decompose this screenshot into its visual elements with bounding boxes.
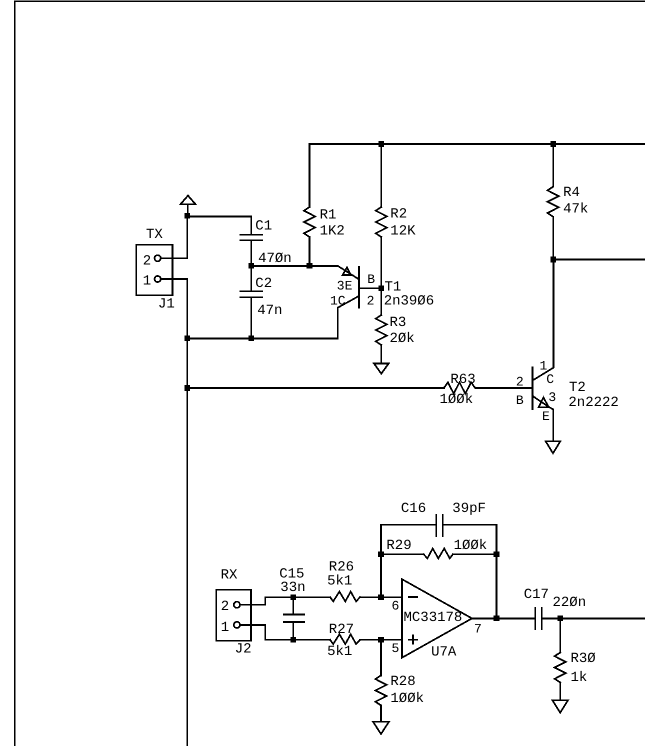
svg-text:U7A: U7A (431, 645, 457, 661)
transistor T1 2n3906 (330, 266, 434, 339)
svg-text:1: 1 (143, 274, 151, 290)
ground symbol R3 (374, 363, 389, 373)
svg-text:1ØØk: 1ØØk (454, 538, 488, 554)
wire power node down to J1 pin2 (161, 216, 188, 258)
svg-text:R3: R3 (390, 315, 407, 331)
resistor R27 (327, 622, 402, 660)
svg-text:39pF: 39pF (452, 501, 486, 517)
resistor R3 (376, 288, 415, 363)
node rail/R2 junction (379, 141, 385, 147)
svg-text:R28: R28 (390, 674, 415, 690)
node R4/T2 collector junction (550, 257, 556, 263)
svg-text:RX: RX (221, 568, 238, 584)
capacitor C16 (381, 501, 497, 536)
node bottom/C2 junction (248, 336, 254, 342)
wire collector rail to right edge (553, 259, 645, 261)
svg-text:J2: J2 (235, 641, 252, 657)
connector J1 (136, 227, 175, 313)
op-amp U7A (392, 579, 482, 660)
resistor R30 (555, 618, 596, 700)
svg-text:1K2: 1K2 (320, 223, 345, 239)
svg-text:R1: R1 (320, 207, 337, 223)
svg-text:B: B (516, 393, 524, 408)
svg-text:R4: R4 (563, 185, 580, 201)
node C17/R30 junction (557, 616, 563, 622)
wire J2 pin2 to minus net (240, 597, 330, 605)
connector J2 (216, 568, 251, 658)
resistor R4 (548, 144, 589, 260)
wire feedback left vertical (380, 525, 382, 597)
node C1/C2 junction (248, 263, 254, 269)
wire J2 pin1 to plus net (240, 625, 330, 640)
capacitor C17 (524, 587, 645, 629)
wire 470n node to T1 emitter (251, 265, 338, 267)
svg-text:R29: R29 (386, 538, 411, 554)
node power junction (185, 213, 191, 219)
svg-text:R63: R63 (450, 372, 475, 388)
capacitor C15 (279, 567, 305, 640)
node feedback right junction (494, 552, 500, 558)
svg-text:47k: 47k (563, 202, 588, 218)
wire bottom node horizontal (187, 337, 337, 339)
svg-text:J1: J1 (158, 297, 175, 313)
svg-text:1C: 1C (330, 294, 346, 309)
resistor R1 (304, 144, 345, 266)
svg-text:2Øk: 2Øk (390, 331, 415, 347)
resistor R26 (327, 559, 402, 601)
svg-text:C16: C16 (401, 501, 426, 517)
svg-text:5k1: 5k1 (327, 574, 352, 590)
node minus input junction (378, 594, 384, 600)
svg-text:47n: 47n (257, 303, 282, 319)
ground symbol R28 (373, 722, 389, 734)
svg-text:12K: 12K (390, 223, 416, 239)
node output/feedback junction (494, 616, 500, 622)
svg-text:33n: 33n (280, 580, 305, 596)
svg-text:1ØØk: 1ØØk (390, 691, 424, 707)
svg-text:1: 1 (221, 620, 229, 636)
capacitor C1 (240, 216, 291, 267)
transistor T2 2n2222 (516, 260, 619, 442)
wire long vertical left bus (186, 338, 188, 746)
wire top supply rail (310, 143, 645, 145)
svg-text:TX: TX (146, 227, 163, 243)
svg-text:T2: T2 (569, 380, 586, 396)
svg-text:R27: R27 (329, 622, 354, 638)
svg-text:C1: C1 (255, 219, 272, 235)
capacitor C2 (240, 266, 282, 339)
svg-text:2: 2 (221, 599, 229, 615)
svg-text:6: 6 (392, 599, 400, 614)
svg-text:R2: R2 (390, 206, 407, 222)
node C15 bottom junction (291, 637, 297, 643)
frame border top (15, 0, 645, 2)
wire power node to C1 (187, 215, 251, 217)
wire J1 pin1 to bottom node (161, 279, 188, 338)
svg-text:1ØØk: 1ØØk (440, 392, 474, 408)
svg-text:2n2222: 2n2222 (568, 395, 618, 411)
resistor R29 (381, 538, 497, 559)
svg-text:22Øn: 22Øn (553, 595, 587, 611)
svg-text:5: 5 (392, 641, 400, 656)
svg-text:R3Ø: R3Ø (571, 651, 596, 667)
resistor R28 (375, 640, 424, 722)
node plus input junction (378, 637, 384, 643)
node T1 base junction (379, 286, 385, 292)
svg-text:C2: C2 (255, 276, 272, 292)
svg-text:2n39Ø6: 2n39Ø6 (384, 293, 434, 309)
svg-text:7: 7 (474, 622, 482, 637)
node base wire junction (185, 385, 191, 391)
svg-text:47Øn: 47Øn (258, 251, 292, 267)
svg-text:2: 2 (516, 375, 524, 390)
svg-text:1k: 1k (571, 670, 588, 686)
svg-text:3E: 3E (337, 279, 353, 294)
svg-text:3: 3 (548, 390, 556, 405)
node C15 top junction (291, 594, 297, 600)
svg-text:2: 2 (143, 254, 151, 270)
wire feedback right vertical (496, 525, 498, 619)
resistor R2 (376, 144, 416, 288)
wire output net (472, 617, 534, 619)
node bottom/J1 junction (185, 336, 191, 342)
svg-text:2: 2 (367, 293, 375, 308)
power symbol VCC arrow (181, 196, 196, 216)
wire base net to R63 (187, 387, 444, 389)
svg-text:E: E (542, 409, 550, 424)
svg-text:C: C (546, 372, 554, 387)
svg-text:B: B (367, 272, 375, 287)
ground symbol R30 (552, 700, 568, 713)
node rail/R4 junction (550, 141, 556, 147)
svg-text:MC33178: MC33178 (404, 610, 463, 626)
frame border left (14, 1, 16, 746)
svg-text:C17: C17 (524, 587, 549, 603)
resistor R63 (440, 372, 533, 408)
svg-text:5k1: 5k1 (327, 644, 352, 660)
ground symbol T2 emitter (546, 441, 561, 453)
node feedback left junction (378, 552, 384, 558)
node R1 bottom junction (307, 263, 313, 269)
